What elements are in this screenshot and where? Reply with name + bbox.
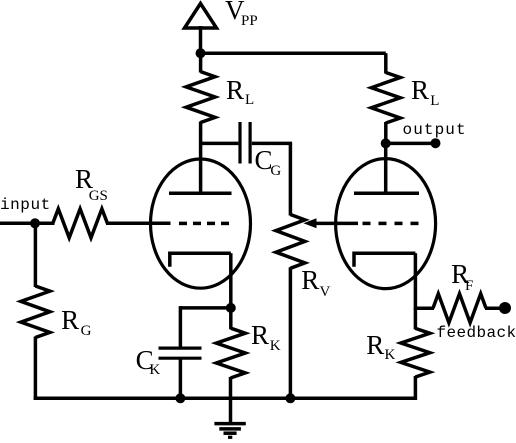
resistor R_GS — [53, 209, 108, 238]
label C_K — [136, 347, 161, 378]
capacitor C_G left plate — [238, 122, 241, 164]
wire RK2 bottom — [414, 376, 418, 400]
wire plate2 stem — [384, 142, 388, 193]
label R_GS — [75, 166, 108, 204]
power symbol Vpp (triangle) — [185, 4, 217, 29]
wire input node down — [34, 223, 38, 287]
wire cathode2 down — [414, 253, 418, 310]
wire Vpp stem — [199, 26, 203, 53]
potentiometer R_V — [276, 215, 305, 269]
wire RK2 top — [414, 308, 418, 329]
capacitor C_G right plate — [249, 122, 252, 164]
node CK-rail junction — [175, 393, 185, 403]
wire RF right — [485, 306, 505, 310]
resistor R_L (left) — [186, 72, 215, 123]
label R_L right — [411, 77, 439, 110]
wiper arrow of R_V — [303, 218, 358, 228]
resistor R_K (right) — [401, 328, 430, 377]
triode U1 cathode — [170, 253, 231, 267]
wire input lead — [0, 222, 55, 226]
triode U2 envelope — [336, 159, 436, 289]
label output — [403, 122, 467, 138]
label R_K right — [366, 332, 395, 364]
resistor R_L (right) — [371, 73, 400, 124]
wire RK1 bottom to ground — [229, 377, 233, 423]
wire cathode1 down — [229, 253, 233, 308]
wire RL2 top drop — [384, 53, 388, 73]
wire RL1 bottom to plate — [199, 122, 203, 194]
wire output lead — [386, 142, 436, 146]
wire plate1 to CG — [201, 142, 239, 146]
triode U1 grid (dashed) — [179, 222, 229, 226]
node output junction — [381, 138, 391, 148]
label C_G — [255, 147, 282, 179]
label R_G — [61, 307, 91, 340]
wire RL1 top — [199, 53, 203, 72]
label feedback — [437, 325, 516, 341]
wire top rail — [201, 51, 386, 55]
wire bottom rail — [34, 397, 416, 401]
wire CG to corner — [252, 142, 292, 146]
triode U2 cathode — [354, 253, 415, 267]
triode U1 envelope — [151, 159, 251, 288]
wire node to CK — [180, 306, 230, 310]
capacitor C_K bottom plate — [159, 357, 202, 360]
triode U2 grid (dashed) — [363, 222, 419, 226]
wire RV bottom — [289, 267, 293, 398]
node Vpp rail junction — [196, 48, 206, 58]
wire RF left — [415, 306, 434, 310]
node input junction — [30, 218, 40, 228]
wire corner down to RV — [289, 143, 293, 215]
resistor R_K (left) — [216, 328, 245, 378]
wire RL2 bottom — [384, 122, 388, 143]
ground symbol — [214, 424, 245, 438]
terminal feedback dot — [499, 302, 511, 314]
triode U2 plate — [354, 192, 419, 196]
node cathode1 junction — [226, 303, 236, 313]
capacitor C_K top plate — [159, 347, 202, 350]
wire CK top — [179, 306, 183, 348]
resistor R_G — [21, 286, 50, 338]
label R_L left — [226, 77, 254, 108]
wire RK1 top — [229, 308, 233, 329]
terminal output dot — [431, 138, 441, 148]
label R_K left — [251, 322, 281, 354]
label input — [0, 197, 51, 213]
resistor R_F — [433, 294, 486, 323]
label R_F — [451, 261, 473, 294]
wire CK bottom — [179, 358, 183, 398]
wire RG bottom — [34, 337, 38, 401]
label R_V — [301, 267, 330, 300]
wire RGS to grid1 — [106, 222, 171, 226]
triode U1 plate — [169, 192, 232, 196]
label Vpp — [225, 0, 258, 29]
node RV-rail junction — [285, 393, 295, 403]
